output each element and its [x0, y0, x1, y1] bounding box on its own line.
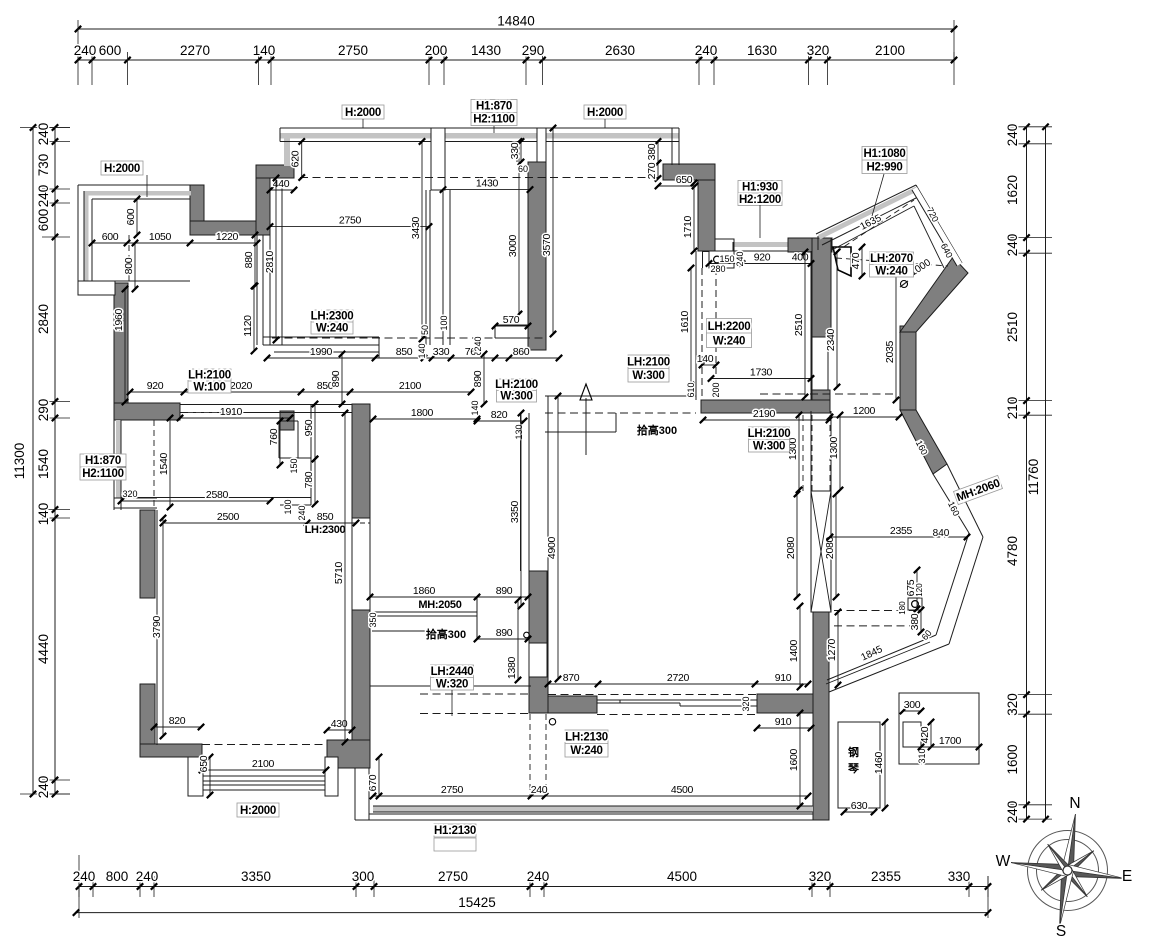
svg-text:240: 240 — [473, 336, 483, 351]
svg-text:670: 670 — [367, 774, 379, 791]
svg-text:W:240: W:240 — [875, 265, 907, 277]
svg-text:1300: 1300 — [828, 436, 840, 459]
svg-text:650: 650 — [198, 755, 210, 772]
svg-text:600: 600 — [125, 208, 137, 225]
svg-text:890: 890 — [472, 370, 484, 387]
svg-text:1630: 1630 — [747, 43, 777, 58]
svg-text:820: 820 — [491, 409, 508, 421]
svg-text:1730: 1730 — [750, 367, 773, 379]
svg-text:60: 60 — [518, 164, 528, 174]
svg-text:240: 240 — [527, 869, 550, 884]
svg-text:H1:870: H1:870 — [85, 455, 121, 467]
svg-text:50: 50 — [420, 325, 430, 335]
svg-text:400: 400 — [792, 252, 809, 264]
svg-text:4440: 4440 — [36, 634, 51, 664]
svg-text:W:300: W:300 — [500, 390, 532, 402]
svg-text:850: 850 — [317, 511, 334, 523]
svg-text:300: 300 — [904, 699, 921, 711]
svg-text:1400: 1400 — [788, 639, 800, 662]
svg-text:LH:2100: LH:2100 — [627, 357, 670, 369]
svg-text:1050: 1050 — [149, 231, 172, 243]
svg-text:330: 330 — [948, 869, 971, 884]
svg-text:1200: 1200 — [853, 405, 876, 417]
svg-text:650: 650 — [676, 174, 693, 186]
svg-text:W:300: W:300 — [753, 440, 785, 452]
svg-text:2750: 2750 — [338, 43, 368, 58]
svg-text:140: 140 — [697, 353, 714, 365]
svg-text:850: 850 — [396, 346, 413, 358]
svg-text:H:2000: H:2000 — [587, 107, 623, 119]
svg-text:W:240: W:240 — [713, 335, 745, 347]
svg-text:H:2000: H:2000 — [240, 805, 276, 817]
svg-text:600: 600 — [36, 209, 51, 232]
svg-text:2750: 2750 — [438, 869, 468, 884]
svg-text:H1:930: H1:930 — [742, 181, 778, 193]
svg-text:240: 240 — [74, 43, 97, 58]
svg-text:320: 320 — [1005, 693, 1020, 716]
svg-text:570: 570 — [503, 314, 520, 326]
svg-text:5710: 5710 — [333, 561, 345, 584]
svg-text:2750: 2750 — [339, 215, 362, 227]
svg-text:1430: 1430 — [471, 43, 501, 58]
svg-text:870: 870 — [563, 672, 580, 684]
svg-text:610: 610 — [686, 382, 696, 397]
svg-text:1460: 1460 — [873, 751, 885, 774]
svg-text:LH:2100: LH:2100 — [188, 369, 231, 381]
svg-text:1430: 1430 — [476, 178, 499, 190]
svg-text:240: 240 — [1005, 124, 1020, 147]
svg-text:3430: 3430 — [410, 216, 422, 239]
svg-text:420: 420 — [919, 726, 931, 743]
svg-text:1540: 1540 — [36, 449, 51, 479]
svg-text:150: 150 — [289, 458, 299, 473]
svg-text:拾高300: 拾高300 — [637, 423, 677, 437]
svg-text:2750: 2750 — [441, 784, 464, 796]
svg-text:2100: 2100 — [252, 758, 275, 770]
svg-text:1800: 1800 — [411, 407, 434, 419]
svg-text:240: 240 — [735, 251, 745, 266]
svg-text:320: 320 — [741, 696, 751, 711]
svg-text:1990: 1990 — [310, 346, 333, 358]
svg-text:320: 320 — [122, 489, 137, 499]
svg-text:H2:1100: H2:1100 — [473, 114, 514, 126]
svg-text:780: 780 — [303, 471, 315, 488]
svg-text:3570: 3570 — [541, 233, 553, 256]
svg-text:600: 600 — [102, 231, 119, 243]
svg-text:LH:2100: LH:2100 — [748, 428, 791, 440]
svg-text:140: 140 — [36, 503, 51, 526]
svg-text:920: 920 — [754, 252, 771, 264]
svg-text:240: 240 — [695, 43, 718, 58]
svg-text:210: 210 — [1005, 397, 1020, 420]
svg-text:270: 270 — [646, 162, 658, 179]
svg-text:240: 240 — [136, 869, 159, 884]
svg-text:2580: 2580 — [206, 489, 229, 501]
svg-text:LH:2100: LH:2100 — [495, 379, 538, 391]
svg-text:H2:1200: H2:1200 — [739, 194, 781, 206]
svg-text:2355: 2355 — [890, 525, 913, 537]
svg-text:1860: 1860 — [413, 585, 436, 597]
svg-text:840: 840 — [933, 528, 950, 539]
svg-text:1910: 1910 — [220, 406, 243, 418]
svg-text:290: 290 — [36, 399, 51, 422]
svg-text:180: 180 — [898, 601, 907, 615]
svg-text:H1:870: H1:870 — [476, 101, 512, 113]
svg-text:280: 280 — [710, 264, 725, 274]
svg-text:760: 760 — [268, 428, 280, 445]
svg-text:2080: 2080 — [785, 536, 797, 559]
svg-text:2510: 2510 — [1005, 312, 1020, 342]
svg-text:240: 240 — [531, 784, 548, 796]
svg-text:100: 100 — [439, 315, 449, 330]
svg-text:2355: 2355 — [871, 869, 901, 884]
svg-text:1710: 1710 — [682, 215, 694, 238]
svg-text:2630: 2630 — [605, 43, 635, 58]
svg-text:130: 130 — [514, 424, 524, 439]
svg-text:3350: 3350 — [509, 500, 521, 523]
svg-text:W:240: W:240 — [570, 745, 602, 757]
svg-text:拾高300: 拾高300 — [426, 627, 466, 641]
svg-text:3350: 3350 — [241, 869, 271, 884]
svg-text:120: 120 — [915, 583, 924, 597]
svg-text:470: 470 — [850, 252, 862, 269]
svg-text:3000: 3000 — [507, 234, 519, 257]
svg-text:890: 890 — [496, 627, 513, 639]
svg-text:890: 890 — [496, 585, 513, 597]
svg-text:320: 320 — [809, 869, 832, 884]
svg-text:11300: 11300 — [12, 443, 27, 480]
svg-text:1270: 1270 — [826, 638, 838, 661]
svg-text:800: 800 — [123, 257, 135, 274]
svg-text:H2:1100: H2:1100 — [82, 468, 123, 480]
svg-text:W:100: W:100 — [193, 381, 225, 393]
svg-text:E: E — [1122, 868, 1132, 885]
svg-text:W: W — [996, 853, 1011, 870]
svg-text:300: 300 — [352, 869, 375, 884]
svg-text:1120: 1120 — [242, 315, 254, 337]
svg-text:11760: 11760 — [1026, 459, 1041, 496]
svg-text:200: 200 — [425, 43, 448, 58]
svg-text:240: 240 — [36, 185, 51, 208]
svg-text:890: 890 — [330, 370, 342, 387]
svg-text:LH:2300: LH:2300 — [305, 524, 346, 536]
svg-text:W:300: W:300 — [632, 370, 664, 382]
svg-text:2810: 2810 — [264, 250, 276, 273]
svg-text:2100: 2100 — [399, 380, 422, 392]
svg-text:H:2000: H:2000 — [104, 163, 140, 175]
svg-text:2190: 2190 — [753, 408, 776, 420]
svg-text:4900: 4900 — [546, 536, 558, 559]
svg-text:1610: 1610 — [679, 310, 691, 333]
svg-text:14840: 14840 — [497, 14, 535, 29]
svg-text:330: 330 — [509, 142, 521, 159]
svg-text:W:320: W:320 — [436, 678, 468, 690]
svg-text:910: 910 — [775, 672, 792, 684]
svg-text:琴: 琴 — [847, 762, 859, 775]
svg-text:330: 330 — [433, 346, 450, 358]
svg-text:140: 140 — [417, 343, 427, 358]
svg-text:1700: 1700 — [939, 735, 962, 747]
svg-text:2035: 2035 — [884, 340, 896, 363]
svg-text:240: 240 — [36, 776, 51, 799]
svg-text:880: 880 — [243, 251, 255, 268]
svg-text:620: 620 — [290, 150, 302, 167]
svg-text:2720: 2720 — [667, 672, 690, 684]
svg-text:150: 150 — [719, 254, 734, 264]
svg-text:240: 240 — [297, 505, 307, 520]
svg-text:1540: 1540 — [158, 452, 170, 475]
svg-text:910: 910 — [775, 716, 792, 728]
svg-text:LH:2440: LH:2440 — [431, 666, 474, 678]
svg-text:600: 600 — [99, 43, 122, 58]
svg-text:240: 240 — [73, 869, 96, 884]
svg-text:钢: 钢 — [848, 745, 859, 759]
svg-text:240: 240 — [1005, 801, 1020, 824]
svg-text:290: 290 — [522, 43, 545, 58]
svg-text:350: 350 — [368, 612, 378, 627]
svg-text:100: 100 — [283, 499, 293, 514]
svg-text:2500: 2500 — [217, 511, 240, 523]
svg-text:800: 800 — [106, 869, 129, 884]
svg-text:LH:2070: LH:2070 — [870, 253, 913, 265]
svg-text:2840: 2840 — [36, 304, 51, 334]
svg-text:240: 240 — [36, 123, 51, 146]
svg-text:820: 820 — [169, 715, 186, 727]
svg-text:730: 730 — [36, 154, 51, 177]
svg-text:4500: 4500 — [667, 869, 697, 884]
svg-text:N: N — [1069, 795, 1080, 812]
svg-text:1620: 1620 — [1005, 175, 1020, 205]
svg-text:2020: 2020 — [230, 380, 253, 392]
svg-text:LH:2200: LH:2200 — [708, 321, 751, 333]
svg-text:H2:990: H2:990 — [867, 162, 903, 174]
svg-text:240: 240 — [1005, 234, 1020, 257]
svg-text:1600: 1600 — [1005, 744, 1020, 774]
svg-text:H:2000: H:2000 — [345, 107, 381, 119]
svg-text:MH:2050: MH:2050 — [418, 599, 461, 611]
svg-text:1600: 1600 — [788, 748, 800, 771]
svg-text:2510: 2510 — [793, 313, 805, 336]
svg-text:LH:2130: LH:2130 — [565, 732, 608, 744]
svg-text:140: 140 — [470, 400, 480, 415]
svg-text:630: 630 — [851, 800, 868, 812]
svg-text:15425: 15425 — [458, 895, 496, 910]
svg-text:1960: 1960 — [113, 308, 125, 331]
svg-text:2080: 2080 — [824, 536, 836, 559]
svg-text:1220: 1220 — [216, 231, 239, 243]
svg-text:860: 860 — [513, 346, 530, 358]
svg-text:S: S — [1056, 923, 1066, 940]
svg-text:2340: 2340 — [825, 328, 837, 351]
svg-text:950: 950 — [303, 419, 315, 436]
svg-text:LH:2300: LH:2300 — [311, 310, 354, 322]
svg-text:200: 200 — [711, 382, 721, 397]
svg-text:140: 140 — [253, 43, 276, 58]
svg-text:4500: 4500 — [671, 784, 694, 796]
svg-text:3790: 3790 — [151, 615, 163, 638]
svg-text:2100: 2100 — [875, 43, 905, 58]
svg-text:920: 920 — [147, 380, 164, 392]
svg-text:4780: 4780 — [1005, 536, 1020, 566]
svg-text:W:240: W:240 — [316, 322, 348, 334]
svg-text:1380: 1380 — [506, 656, 518, 679]
svg-text:2270: 2270 — [180, 43, 210, 58]
svg-text:380: 380 — [646, 143, 658, 160]
svg-text:380: 380 — [909, 613, 921, 630]
svg-text:H1:2130: H1:2130 — [434, 825, 476, 837]
svg-text:320: 320 — [807, 43, 830, 58]
svg-text:H1:1080: H1:1080 — [863, 148, 905, 160]
